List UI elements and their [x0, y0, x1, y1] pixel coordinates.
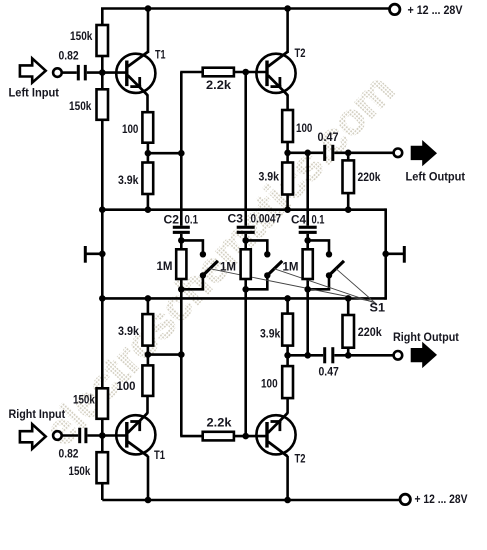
svg-text:150k: 150k [73, 394, 95, 406]
terminal + supply bottom [400, 494, 410, 504]
wire bottom 100/3.9k junction to C2 column [148, 353, 181, 356]
node top rail T2 collector [284, 5, 291, 12]
node C3 below cap [242, 237, 249, 244]
switch S1a lever [203, 261, 218, 276]
stub terminal left of box [85, 246, 102, 263]
wire T1 top collector vertical [147, 9, 150, 54]
node box bottom 220k [345, 295, 352, 302]
node C2 column bottom junction [178, 351, 185, 358]
wire T2 top collector vertical [286, 9, 289, 54]
wire T1 bottom collector vertical [147, 456, 150, 500]
svg-text:100: 100 [296, 123, 312, 135]
resistor 150k (top lower) [97, 89, 109, 120]
resistor 1M (C3 section) [241, 249, 251, 279]
wire top supply rail [102, 9, 389, 501]
arrow left output [411, 140, 437, 166]
svg-text:C4: C4 [291, 215, 307, 227]
node left stub [99, 251, 106, 258]
resistor 100 (T1 bottom) [142, 365, 153, 396]
resistor 2.2k (bottom) [203, 432, 234, 441]
node C3 below 1M [242, 286, 249, 293]
svg-text:+ 12 ... 28V: + 12 ... 28V [408, 5, 463, 17]
svg-text:+ 12 ... 28V: + 12 ... 28V [415, 494, 468, 506]
node C4 below 1M [304, 286, 311, 293]
transistor T2 (bottom) [256, 413, 295, 457]
thin mechanical link lines to S1 [210, 269, 377, 305]
svg-text:3.9k: 3.9k [118, 326, 140, 338]
resistor 1M (C4 section) [303, 249, 313, 279]
resistor 2.2k (top) [203, 68, 234, 77]
node C2 below 1M [178, 286, 185, 293]
wire T1 emitter column [146, 95, 149, 211]
switch S1a wiring (C2 section) [181, 240, 203, 289]
resistor 220k (bottom) [343, 315, 355, 348]
terminal right input [53, 431, 62, 440]
arrow left input [20, 58, 46, 82]
node C4 column top junction [304, 150, 311, 157]
wire left input to base [62, 71, 127, 74]
wire C3 column [244, 72, 247, 436]
terminal right output [394, 351, 403, 360]
svg-text:220k: 220k [358, 172, 382, 184]
svg-text:150k: 150k [69, 101, 92, 113]
node box bottom 3.9k T2 [284, 295, 291, 302]
terminal left input [53, 68, 62, 77]
node C2 below cap [178, 237, 185, 244]
switch S1b lever [267, 261, 282, 276]
node 2.2k / T2 base [242, 69, 249, 76]
wire 2.2k bottom row [180, 435, 267, 438]
wire left output line [288, 152, 394, 155]
svg-text:100: 100 [122, 124, 138, 136]
capacitor C3 0.0047 plates [237, 226, 255, 234]
switch S1b contacts [264, 251, 270, 257]
resistor 150k (bottom lower) [97, 452, 109, 483]
wire T2 bottom collector vertical [286, 456, 289, 500]
capacitor C2 0.1 plates [173, 226, 190, 234]
node bottom rail T1 collector [145, 497, 152, 504]
stub terminal right of box [386, 246, 405, 263]
svg-text:2.2k: 2.2k [207, 418, 233, 430]
svg-text:T2: T2 [295, 453, 306, 465]
switch S1c contacts [326, 251, 332, 257]
switch S1b wiring (C3 section) [246, 240, 268, 289]
watermark electroschematics.com [35, 65, 404, 455]
node top rail T1 collector [145, 5, 152, 12]
svg-text:1M: 1M [220, 262, 236, 274]
svg-text:2.2k: 2.2k [206, 80, 232, 92]
svg-text:0.1: 0.1 [312, 215, 325, 227]
svg-text:3.9k: 3.9k [259, 172, 280, 184]
svg-text:C2: C2 [164, 215, 180, 227]
wire C2 column (2.2k tap down through box) [180, 72, 183, 436]
svg-text:0.47: 0.47 [318, 132, 339, 144]
wire 220k bottom drop [347, 298, 350, 355]
svg-text:1M: 1M [157, 261, 173, 273]
node T1 bottom emitter junction [145, 351, 152, 358]
node left input base [99, 69, 106, 76]
node box bottom left corner [99, 295, 106, 302]
wire middle box top [102, 208, 385, 211]
switch S1c wiring (C4 section) [308, 240, 329, 289]
svg-text:3.9k: 3.9k [118, 175, 139, 187]
svg-text:220k: 220k [358, 327, 383, 339]
resistor 150k (bottom upper) [97, 388, 109, 419]
resistor 150k (top upper) [97, 25, 109, 56]
node T1 emitter junction [145, 150, 152, 157]
node C2 column top junction [178, 150, 185, 157]
resistor 100 (T1 top) [142, 112, 153, 143]
svg-text:0.82: 0.82 [59, 51, 79, 63]
capacitor 0.82 (right input) [78, 428, 87, 444]
node box bottom 3.9k T1 [145, 295, 152, 302]
node box top 3.9k T1 [145, 206, 152, 213]
capacitor C4 0.1 plates [299, 226, 317, 234]
svg-text:100: 100 [117, 381, 136, 393]
wire middle box right edge [384, 208, 387, 299]
terminal + supply top [390, 4, 400, 14]
node 2.2k / T2 base bottom [242, 433, 249, 440]
svg-text:150k: 150k [69, 466, 91, 478]
resistor 3.9k (T1 bottom) [142, 314, 153, 346]
svg-text:150k: 150k [70, 31, 93, 43]
node box top 3.9k T2 [284, 206, 291, 213]
svg-text:Right Output: Right Output [393, 332, 459, 344]
svg-text:T1: T1 [155, 50, 166, 62]
transistor T1 (bottom) [116, 413, 155, 457]
svg-text:0.0047: 0.0047 [251, 214, 282, 226]
wire T1 bottom column [146, 298, 149, 413]
transistor T2 (top) [256, 52, 295, 95]
resistor 1M (C2 section) [176, 249, 186, 279]
resistor 3.9k (T1 top) [142, 163, 153, 195]
svg-text:Left Input: Left Input [9, 88, 60, 100]
arrow right output [411, 342, 437, 368]
wire T2 bottom column [286, 298, 289, 413]
svg-text:100: 100 [261, 378, 278, 390]
resistor 100 (T2 top) [282, 110, 293, 142]
node C4 column bottom junction [304, 352, 311, 359]
switch S1c lever [329, 261, 344, 276]
node right input base [99, 432, 106, 439]
svg-text:3.9k: 3.9k [260, 329, 281, 341]
svg-text:Right Input: Right Input [9, 409, 66, 421]
node 220k top junction [345, 150, 352, 157]
wire right input to base [62, 434, 127, 437]
wire node 100/3.9k junction to C2 column [148, 152, 181, 155]
node T2 emitter junction [284, 150, 291, 157]
terminal left output [394, 149, 403, 158]
transistor T1 (top) [116, 52, 155, 95]
wire bottom supply rail [102, 499, 399, 502]
svg-text:S1: S1 [370, 303, 386, 315]
svg-text:0.1: 0.1 [185, 215, 199, 227]
capacitor 0.47 (left output) [323, 145, 334, 161]
capacitor 0.47 (right output) [323, 347, 334, 363]
arrow right input [20, 424, 46, 449]
node 220k bottom junction [345, 352, 352, 359]
svg-text:0.47: 0.47 [319, 366, 339, 378]
node bottom rail T2 collector [284, 497, 291, 504]
resistor 3.9k (T2 top) [282, 163, 293, 195]
node box top 220k [345, 206, 352, 213]
switch S1a contacts [200, 251, 206, 257]
node right stub [382, 251, 389, 258]
node C4 below cap [304, 237, 311, 244]
wire 220k top drop [347, 153, 350, 211]
svg-text:T2: T2 [295, 48, 306, 60]
wire 2.2k top row [180, 71, 267, 74]
wire C4 column [306, 153, 309, 355]
svg-text:T1: T1 [154, 450, 165, 462]
wire right output line [288, 354, 394, 357]
node box top left corner [99, 206, 106, 213]
node T2 bottom emitter junction [284, 352, 291, 359]
resistor 220k (top) [343, 160, 355, 193]
resistor 3.9k (T2 bottom) [282, 314, 293, 346]
svg-text:Left Output: Left Output [406, 172, 466, 184]
svg-text:1M: 1M [283, 262, 299, 274]
svg-text:C3: C3 [228, 214, 244, 226]
resistor 100 (T2 bottom) [282, 366, 293, 398]
wire middle box bottom [102, 297, 385, 300]
svg-text:0.82: 0.82 [59, 449, 79, 461]
wire T2 top emitter column [286, 95, 289, 211]
capacitor 0.82 (left input) [77, 65, 87, 81]
